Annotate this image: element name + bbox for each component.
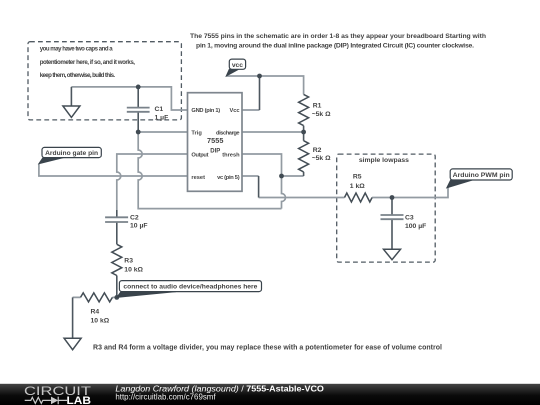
svg-text:~5k Ω: ~5k Ω <box>312 111 331 118</box>
svg-text:C3: C3 <box>405 215 414 222</box>
svg-text:R1: R1 <box>313 103 322 110</box>
svg-text:C2: C2 <box>130 214 139 221</box>
svg-text:Output: Output <box>191 153 208 159</box>
svg-text:keep them, otherwise, build th: keep them, otherwise, build this. <box>40 72 116 79</box>
svg-text:vcc: vcc <box>232 62 243 69</box>
svg-text:R3 and R4 form a voltage divid: R3 and R4 form a voltage divider, you ma… <box>93 345 442 352</box>
svg-text:Arduino PWM pin: Arduino PWM pin <box>453 172 510 179</box>
svg-text:vc (pin 5): vc (pin 5) <box>217 175 240 181</box>
svg-text:LAB: LAB <box>67 395 92 405</box>
svg-text:10 kΩ: 10 kΩ <box>124 267 143 274</box>
svg-text:10 kΩ: 10 kΩ <box>91 317 110 324</box>
svg-text:7555: 7555 <box>207 136 224 145</box>
svg-text:~5k Ω: ~5k Ω <box>312 155 331 162</box>
svg-text:simple lowpass: simple lowpass <box>359 157 409 164</box>
svg-text:R2: R2 <box>313 147 322 154</box>
svg-text:DIP: DIP <box>210 148 221 155</box>
svg-text:R5: R5 <box>353 173 362 180</box>
svg-text:C1: C1 <box>155 106 164 113</box>
svg-text:connect to audio device/headph: connect to audio device/headphones here <box>123 284 257 291</box>
svg-text:Arduino gate pin: Arduino gate pin <box>45 150 98 157</box>
svg-text:Trig: Trig <box>191 130 202 136</box>
svg-text:R4: R4 <box>91 308 100 315</box>
svg-text:10 µF: 10 µF <box>130 223 148 230</box>
svg-text:Vcc: Vcc <box>229 108 239 114</box>
svg-text:100 µF: 100 µF <box>405 223 426 230</box>
svg-text:The 7555 pins in the schematic: The 7555 pins in the schematic are in or… <box>190 33 486 40</box>
svg-text:R3: R3 <box>124 257 133 264</box>
svg-text:1 µF: 1 µF <box>155 114 169 121</box>
svg-text:GND (pin 1): GND (pin 1) <box>191 108 220 114</box>
svg-text:http://circuitlab.com/c769smf: http://circuitlab.com/c769smf <box>115 392 216 401</box>
svg-text:thresh: thresh <box>222 153 240 159</box>
svg-text:potentiometer here, if so, and: potentiometer here, if so, and it works, <box>40 59 136 66</box>
svg-text:reset: reset <box>191 175 205 181</box>
svg-text:1 kΩ: 1 kΩ <box>350 183 365 190</box>
svg-text:you may have two caps and a: you may have two caps and a <box>40 46 114 53</box>
svg-text:pin 1, moving around the dual: pin 1, moving around the dual inline pac… <box>196 42 474 49</box>
